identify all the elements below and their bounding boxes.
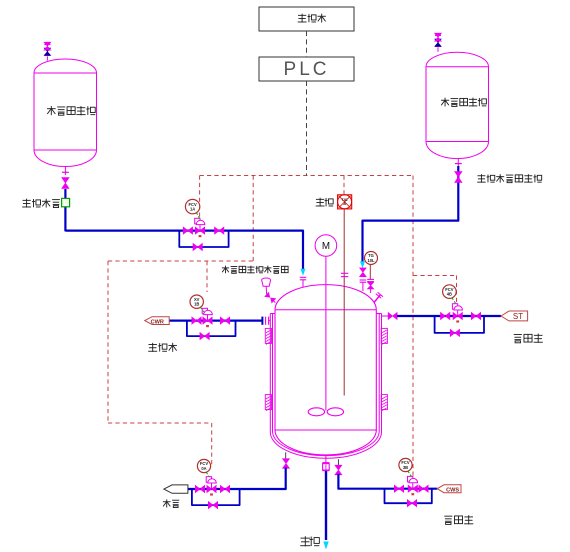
CWS flag <box>437 485 461 493</box>
valve V11 ST block 1 <box>441 312 450 319</box>
instrument FCV steam <box>443 285 457 299</box>
CWR bypass <box>187 321 236 336</box>
drain bypass <box>192 490 240 505</box>
reactor R1 body <box>275 285 376 310</box>
signal drop to FCV feed <box>199 176 201 219</box>
ST flag <box>501 311 528 321</box>
reactor cws nozzle <box>337 459 339 465</box>
label temperature measure <box>319 198 321 207</box>
label cold water out <box>152 343 154 352</box>
control valve FV4 cws <box>408 485 417 492</box>
control valve XV CWR <box>203 317 212 324</box>
tank T1 outlet stub <box>64 167 66 176</box>
feed arrow into reactor <box>301 269 306 276</box>
instrument FCV drain <box>197 459 210 472</box>
instrument TICA box <box>338 195 352 209</box>
signal horizontal y423 <box>108 422 212 424</box>
label manual feed triethylamine <box>480 174 482 182</box>
valve V8 CWR block 2 <box>220 317 229 324</box>
valve V10 at reactor steam nozzle <box>388 313 397 320</box>
valve V2 feed block 1 <box>183 227 192 234</box>
valve V12 ST block 2 <box>471 312 480 319</box>
valve V3 feed block 2 <box>215 227 224 234</box>
discharge nozzle <box>325 456 327 463</box>
svg-text:1B: 1B <box>194 302 199 307</box>
sight glass (flow) green <box>62 198 70 206</box>
TG gland valve <box>367 282 373 289</box>
signal vertical right x413 <box>412 176 414 478</box>
signal branch to steam FCV <box>413 275 457 277</box>
thermowell line <box>343 209 345 396</box>
reactor right nozzle <box>382 315 389 317</box>
pipe drain <box>188 468 286 490</box>
signal vertical left x108 <box>107 261 109 423</box>
label auto-drip <box>26 199 28 208</box>
agitator motor M <box>315 235 337 257</box>
instrument FCV-1A <box>185 199 199 213</box>
valve V5 (tank T2 outlet) <box>455 172 462 183</box>
pipe CWR <box>169 320 262 322</box>
reactor drain nozzle <box>285 452 287 459</box>
label discharge <box>304 536 306 546</box>
signal drop to drain FCV <box>211 423 213 465</box>
impeller <box>308 408 324 416</box>
label drain <box>166 499 168 507</box>
green link FCV-1A <box>197 213 200 219</box>
signal drop to TICA <box>343 176 345 196</box>
pipe tank T2 to reactor <box>363 166 459 262</box>
label steam in <box>514 334 522 336</box>
valve V1 (tank T1 outlet) <box>62 178 69 189</box>
control valve FV1 feed <box>195 227 204 234</box>
svg-text:10L: 10L <box>367 258 375 263</box>
instrument FCV cws <box>399 458 412 471</box>
svg-text:A: A <box>343 202 346 206</box>
jacket lug <box>381 395 387 410</box>
valve V13 ST bypass <box>450 329 459 336</box>
instrument TG <box>365 252 378 265</box>
valve V9 CWR bypass <box>200 333 209 340</box>
computer box <box>259 7 354 31</box>
svg-text:TIC: TIC <box>342 198 348 202</box>
tank T2 (triethylamine) <box>426 52 489 158</box>
jacket lug <box>265 395 271 410</box>
pipe tank T1 to feed line <box>64 189 66 231</box>
signal horizontal y261 <box>108 260 253 262</box>
svg-text:PLC: PLC <box>284 59 330 80</box>
valve V6 on T2 feed entry <box>360 268 367 277</box>
CWR flag <box>145 317 169 325</box>
pipe CWS <box>338 474 437 489</box>
label manual catalyst feed <box>224 266 226 274</box>
tank T1 vent valve <box>46 56 48 60</box>
dashed link computer-PLC <box>306 31 308 57</box>
svg-text:1A: 1A <box>190 207 195 212</box>
discharge valve body <box>323 464 330 470</box>
agitator shaft <box>325 256 327 410</box>
valve V14 drain nozzle <box>283 459 290 469</box>
reactor jacket <box>269 314 271 433</box>
pipe discharge <box>325 471 327 540</box>
discharge arrow <box>323 542 328 550</box>
valve V7 CWR block 1 <box>192 317 201 324</box>
svg-text:ST: ST <box>513 312 523 321</box>
feed bypass pipe <box>179 231 228 247</box>
instrument XV <box>190 295 203 308</box>
dashed link PLC to bus <box>306 81 308 176</box>
control valve FV3 drain <box>207 485 216 492</box>
valve V16 drain block 2 <box>220 485 229 492</box>
svg-text:M: M <box>322 241 330 252</box>
ST bypass <box>435 317 484 333</box>
PLC box <box>259 57 354 81</box>
catalyst funnel <box>262 278 271 286</box>
tank T2 outlet stub <box>457 159 459 166</box>
svg-text:4B: 4B <box>447 292 452 297</box>
catalyst feed valve (diagonal) <box>264 292 276 304</box>
svg-text:0A: 0A <box>201 466 206 471</box>
svg-text:CWS: CWS <box>446 487 459 493</box>
signal drop at x253 <box>252 176 254 262</box>
tank T1 (hydrogen peroxide) <box>34 59 97 73</box>
signal bus horizontal (PLC net) <box>200 175 413 177</box>
control valve FV2 ST <box>453 312 462 319</box>
feed main pipe <box>65 231 303 270</box>
reactor left nozzle flanges <box>265 317 267 325</box>
drain flag <box>164 485 188 493</box>
valve V18 cws nozzle <box>335 465 342 475</box>
valve V19 cws block 1 <box>394 485 403 492</box>
svg-text:3B: 3B <box>403 465 408 470</box>
valve V20 cws block 2 <box>419 485 428 492</box>
tank T2 vent valve <box>437 47 439 52</box>
pipe ST <box>397 315 501 317</box>
valve V4 feed bypass <box>193 243 202 250</box>
CWS bypass <box>385 490 432 504</box>
valve V15 drain block 1 <box>195 485 204 492</box>
valve V21 cws bypass <box>407 500 416 507</box>
signal drop to XV <box>206 261 208 292</box>
slant nozzle <box>374 295 380 303</box>
jacket lug <box>381 328 387 343</box>
jacket lug <box>265 328 271 343</box>
svg-text:CWR: CWR <box>151 319 164 325</box>
label cold water in <box>444 515 452 517</box>
feed T2 arrow into reactor <box>360 261 365 268</box>
valve V17 drain bypass <box>208 502 217 509</box>
